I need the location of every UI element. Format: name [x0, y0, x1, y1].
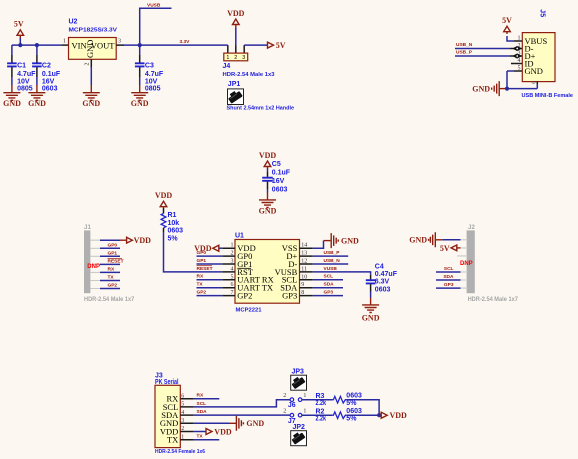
svg-text:USB_N: USB_N [456, 42, 473, 48]
svg-text:C2: C2 [42, 63, 51, 70]
svg-text:11: 11 [301, 266, 307, 272]
svg-text:5%: 5% [346, 400, 357, 407]
svg-text:5%: 5% [346, 416, 357, 423]
net label RESET [197, 266, 213, 272]
svg-text:GP0: GP0 [197, 250, 207, 256]
svg-text:5V: 5V [14, 20, 24, 29]
svg-text:10V: 10V [145, 78, 158, 85]
power port VDD (J3) [206, 428, 232, 437]
svg-text:12: 12 [301, 259, 307, 265]
resistor R1 [161, 208, 183, 243]
svg-text:GND: GND [341, 236, 359, 245]
svg-text:TX: TX [108, 275, 115, 281]
svg-text:C3: C3 [145, 63, 154, 70]
node junction USB GND [505, 87, 509, 91]
svg-text:GND: GND [85, 40, 95, 58]
svg-text:J2: J2 [468, 224, 475, 231]
svg-text:GP2: GP2 [108, 283, 118, 289]
svg-text:VDD: VDD [214, 428, 232, 437]
jumper JP3 [290, 368, 306, 390]
svg-text:GND: GND [409, 236, 427, 245]
power port 5V (USB) [502, 16, 512, 34]
svg-text:5%: 5% [168, 236, 179, 243]
svg-text:4: 4 [231, 266, 234, 272]
jumper JP1 [227, 81, 295, 112]
svg-text:GND: GND [28, 99, 46, 108]
svg-text:8: 8 [301, 290, 304, 296]
svg-text:5: 5 [518, 65, 521, 71]
svg-text:USB_P: USB_P [324, 250, 341, 256]
wire J2 GP3 [436, 287, 461, 289]
svg-text:USB_N: USB_N [324, 258, 341, 264]
svg-text:3: 3 [118, 39, 121, 45]
ground power port (J2) [409, 232, 442, 247]
capacitor C2 [32, 45, 61, 92]
wire J1 RESET [100, 263, 120, 265]
wire GP2 [197, 295, 223, 297]
svg-text:0603: 0603 [42, 86, 58, 93]
jumper JP2 [290, 424, 306, 446]
wire R1 to RST [164, 232, 223, 272]
svg-text:7: 7 [231, 290, 234, 296]
svg-text:1: 1 [303, 409, 306, 415]
svg-text:GP3: GP3 [282, 291, 297, 301]
svg-text:GND: GND [362, 313, 380, 322]
svg-text:1: 1 [63, 39, 66, 45]
wire USB_N [455, 48, 510, 50]
svg-text:J6: J6 [288, 402, 296, 409]
node junction C3/VUSB [138, 43, 142, 47]
svg-text:2: 2 [283, 393, 286, 399]
svg-text:HDR-2.54 Male 1x3: HDR-2.54 Male 1x3 [223, 72, 275, 78]
svg-text:GND: GND [3, 99, 21, 108]
wire RX [197, 279, 223, 281]
svg-text:10V: 10V [17, 78, 30, 85]
svg-text:R2: R2 [316, 408, 325, 415]
wire J1 VDD [100, 239, 120, 241]
svg-text:5: 5 [231, 274, 234, 280]
svg-text:1: 1 [226, 55, 229, 61]
svg-text:6.3V: 6.3V [375, 279, 390, 286]
svg-text:HDR-2.54 Male 1x7: HDR-2.54 Male 1x7 [84, 296, 135, 303]
pin glyph D- [512, 46, 522, 51]
svg-text:GND: GND [246, 419, 264, 428]
wire R2 to VDD node [347, 414, 379, 416]
svg-text:GP3: GP3 [444, 282, 454, 288]
svg-text:1: 1 [303, 393, 306, 399]
header J1 (DNP) [84, 224, 135, 303]
ground power port (J3) [236, 416, 264, 431]
svg-text:2.2k: 2.2k [316, 416, 327, 423]
svg-text:GP0: GP0 [108, 243, 118, 249]
svg-text:3: 3 [231, 259, 234, 265]
svg-text:2: 2 [181, 426, 184, 432]
svg-text:U2: U2 [69, 19, 78, 26]
svg-text:JP1: JP1 [228, 81, 241, 88]
svg-text:J5: J5 [539, 9, 546, 17]
svg-text:RX: RX [197, 274, 204, 280]
node junction VDD (R2/R3) [377, 413, 381, 417]
wire J4 pin3 to 5V [244, 44, 267, 46]
svg-text:VUSB: VUSB [147, 3, 161, 9]
wire C1 branch [11, 45, 13, 55]
power port VDD (J1) [120, 236, 151, 245]
svg-text:C4: C4 [375, 263, 384, 270]
wire J7 to R2 [302, 414, 333, 416]
node junction 5V [18, 43, 22, 47]
ground C4 [362, 298, 380, 323]
svg-text:U1: U1 [235, 232, 244, 239]
wire TX [197, 287, 223, 289]
svg-text:0.1uF: 0.1uF [272, 170, 291, 177]
ground U2 [82, 85, 100, 108]
wire J1 GP2 [100, 288, 120, 290]
svg-text:DNP: DNP [460, 261, 473, 267]
svg-text:9: 9 [301, 282, 304, 288]
USB connector J5 [510, 33, 573, 99]
IC U1 [222, 232, 312, 313]
ground C1 [3, 85, 21, 108]
svg-text:VDD: VDD [259, 151, 277, 160]
svg-text:JP3: JP3 [292, 368, 305, 375]
wire J1 GP0 [100, 247, 120, 249]
svg-text:GND: GND [525, 66, 543, 76]
wire J2 GND [442, 239, 460, 241]
power port VDD (R2/R3) [381, 411, 407, 420]
wire J2 SCL [436, 271, 461, 273]
wire GP3 [313, 295, 343, 297]
net label RESET (J1) [108, 259, 124, 265]
wire GP0 [197, 255, 223, 257]
svg-text:4: 4 [181, 410, 184, 416]
power port 5V [14, 20, 24, 46]
svg-text:4.7uF: 4.7uF [145, 71, 164, 78]
wire VSS to ground [313, 241, 324, 249]
svg-text:HDR-2.54 Male 1x7: HDR-2.54 Male 1x7 [468, 296, 519, 303]
svg-text:16V: 16V [272, 178, 285, 185]
svg-text:0603: 0603 [168, 228, 184, 235]
svg-text:3: 3 [242, 55, 245, 61]
svg-text:RX: RX [108, 267, 115, 273]
svg-text:6: 6 [231, 282, 234, 288]
svg-text:0603: 0603 [375, 286, 391, 293]
capacitor C1 [7, 55, 36, 93]
jumper header J6 [283, 393, 306, 409]
svg-text:TX: TX [197, 282, 204, 288]
resistor R2 [316, 408, 362, 423]
power port 5V (J2) [440, 244, 461, 253]
svg-text:JP2: JP2 [293, 424, 306, 431]
svg-text:USB_P: USB_P [456, 50, 473, 56]
node junction C2 [35, 43, 39, 47]
svg-text:4.7uF: 4.7uF [17, 71, 36, 78]
svg-text:VUSB: VUSB [324, 266, 338, 272]
svg-text:TX: TX [197, 434, 204, 440]
svg-text:13: 13 [301, 251, 307, 257]
svg-text:Shunt 2.54mm 1x2 Handle: Shunt 2.54mm 1x2 Handle [227, 106, 295, 112]
jumper header J7 [283, 409, 306, 425]
svg-text:VDD: VDD [227, 9, 245, 18]
wire D+ USB_P [313, 255, 349, 257]
svg-text:TX: TX [167, 435, 178, 445]
svg-text:MCP2221: MCP2221 [236, 307, 262, 313]
svg-text:5V: 5V [276, 41, 286, 50]
wire 3.3V rail [124, 44, 228, 46]
svg-text:0805: 0805 [17, 86, 33, 93]
wire USB VBUS [507, 36, 514, 41]
capacitor C5 [262, 161, 291, 193]
capacitor C3 [135, 45, 164, 92]
svg-text:VDD: VDD [134, 236, 152, 245]
wire J3 TX [194, 439, 220, 441]
wire VUSB riser [140, 8, 172, 45]
svg-text:0.47uF: 0.47uF [375, 271, 398, 278]
svg-text:2: 2 [84, 63, 90, 66]
wire J1 GP1 [100, 255, 120, 257]
svg-text:4: 4 [518, 58, 521, 64]
ground power port (USB) [472, 81, 505, 96]
ground C5 [259, 193, 277, 216]
wire U2 GND [90, 67, 92, 85]
svg-text:0603: 0603 [346, 392, 362, 399]
svg-text:SCL: SCL [197, 401, 207, 407]
svg-text:1: 1 [231, 243, 234, 249]
svg-text:USB MINI-B Female: USB MINI-B Female [522, 93, 574, 99]
svg-text:GP3: GP3 [324, 290, 334, 296]
svg-text:SDA: SDA [443, 274, 454, 280]
wire J3 GND [194, 422, 230, 424]
wire R3 to VDD node [347, 400, 379, 416]
power port VDD (R1) [155, 191, 173, 208]
svg-text:C1: C1 [17, 63, 26, 70]
power port 5V (J4) [268, 41, 286, 50]
svg-text:SCL: SCL [324, 274, 334, 280]
svg-text:6: 6 [531, 81, 537, 84]
svg-text:2: 2 [283, 409, 286, 415]
svg-text:2.2k: 2.2k [316, 400, 327, 407]
svg-text:16V: 16V [42, 78, 55, 85]
wire SCL [313, 279, 343, 281]
svg-text:10k: 10k [168, 220, 180, 227]
svg-text:1: 1 [518, 35, 521, 41]
svg-text:5V: 5V [440, 244, 450, 253]
svg-text:MCP1825S/3.3V: MCP1825S/3.3V [69, 28, 118, 34]
svg-text:2: 2 [234, 55, 237, 61]
wire J1 TX [100, 280, 120, 282]
svg-text:RX: RX [197, 393, 204, 399]
pin glyph D+ [512, 53, 522, 58]
svg-text:GP2: GP2 [237, 291, 252, 301]
svg-text:RESET: RESET [197, 266, 213, 272]
svg-text:R3: R3 [316, 393, 325, 400]
svg-text:C5: C5 [272, 161, 281, 168]
power port VDD (J4) [227, 9, 245, 46]
svg-text:HDR-2.54 Female 1x6: HDR-2.54 Female 1x6 [155, 449, 205, 455]
svg-text:VDD: VDD [390, 411, 408, 420]
svg-text:0805: 0805 [145, 86, 161, 93]
wire USB_P [455, 55, 510, 57]
svg-text:6: 6 [181, 393, 184, 399]
wire GP1 [197, 263, 223, 265]
svg-text:RESET: RESET [108, 259, 124, 265]
svg-text:GND: GND [259, 207, 277, 216]
svg-text:3: 3 [181, 418, 184, 424]
wire J6 to R3 [302, 399, 333, 401]
svg-text:5V: 5V [502, 16, 512, 25]
ground power port (U1 VSS) [324, 233, 360, 248]
power port VDD (C5) [259, 151, 277, 170]
capacitor C4 [366, 263, 398, 297]
header J4 [223, 45, 275, 78]
header J2 (DNP) [457, 224, 518, 303]
svg-text:10: 10 [301, 274, 307, 280]
regulator U2 [62, 19, 124, 67]
svg-text:1: 1 [181, 434, 184, 440]
wire 5V rail to U2 VIN [12, 44, 62, 46]
svg-text:14: 14 [301, 243, 307, 249]
wire J3 VDD [194, 431, 206, 433]
wire J1 RX [100, 271, 120, 273]
wire SDA [313, 287, 343, 289]
svg-text:SDA: SDA [324, 282, 335, 288]
wire J3 RX [194, 398, 220, 400]
svg-text:R1: R1 [168, 212, 177, 219]
svg-text:GND: GND [82, 99, 100, 108]
svg-text:0.1uF: 0.1uF [42, 71, 61, 78]
svg-text:GP1: GP1 [108, 251, 118, 257]
power port VDD (U1 pin1) [194, 244, 222, 253]
wire J3 SDA to J7 [194, 414, 291, 416]
svg-text:SDA: SDA [197, 409, 208, 415]
wire J3 SCL to J6 [194, 400, 291, 407]
svg-text:GND: GND [472, 84, 490, 93]
wire USB GND [507, 71, 537, 89]
svg-text:0603: 0603 [346, 408, 362, 415]
svg-text:DNP: DNP [87, 264, 100, 270]
svg-text:SCL: SCL [444, 266, 454, 272]
svg-text:3.3V: 3.3V [180, 39, 191, 45]
wire VUSB to C4 [313, 272, 371, 275]
svg-text:5: 5 [181, 402, 184, 408]
svg-text:J1: J1 [84, 224, 91, 231]
connector J3 [155, 372, 205, 455]
resistor R3 [316, 392, 362, 407]
svg-text:GND: GND [131, 99, 149, 108]
svg-text:0603: 0603 [272, 187, 288, 194]
svg-text:GP2: GP2 [197, 290, 207, 296]
ground C3 [131, 85, 149, 108]
wire D- USB_N [313, 263, 349, 265]
svg-text:VDD: VDD [155, 191, 173, 200]
ground C2 [28, 85, 46, 108]
svg-text:GP1: GP1 [197, 258, 207, 264]
svg-text:2: 2 [231, 251, 234, 257]
wire J2 SDA [436, 279, 461, 281]
svg-text:J4: J4 [223, 63, 231, 70]
